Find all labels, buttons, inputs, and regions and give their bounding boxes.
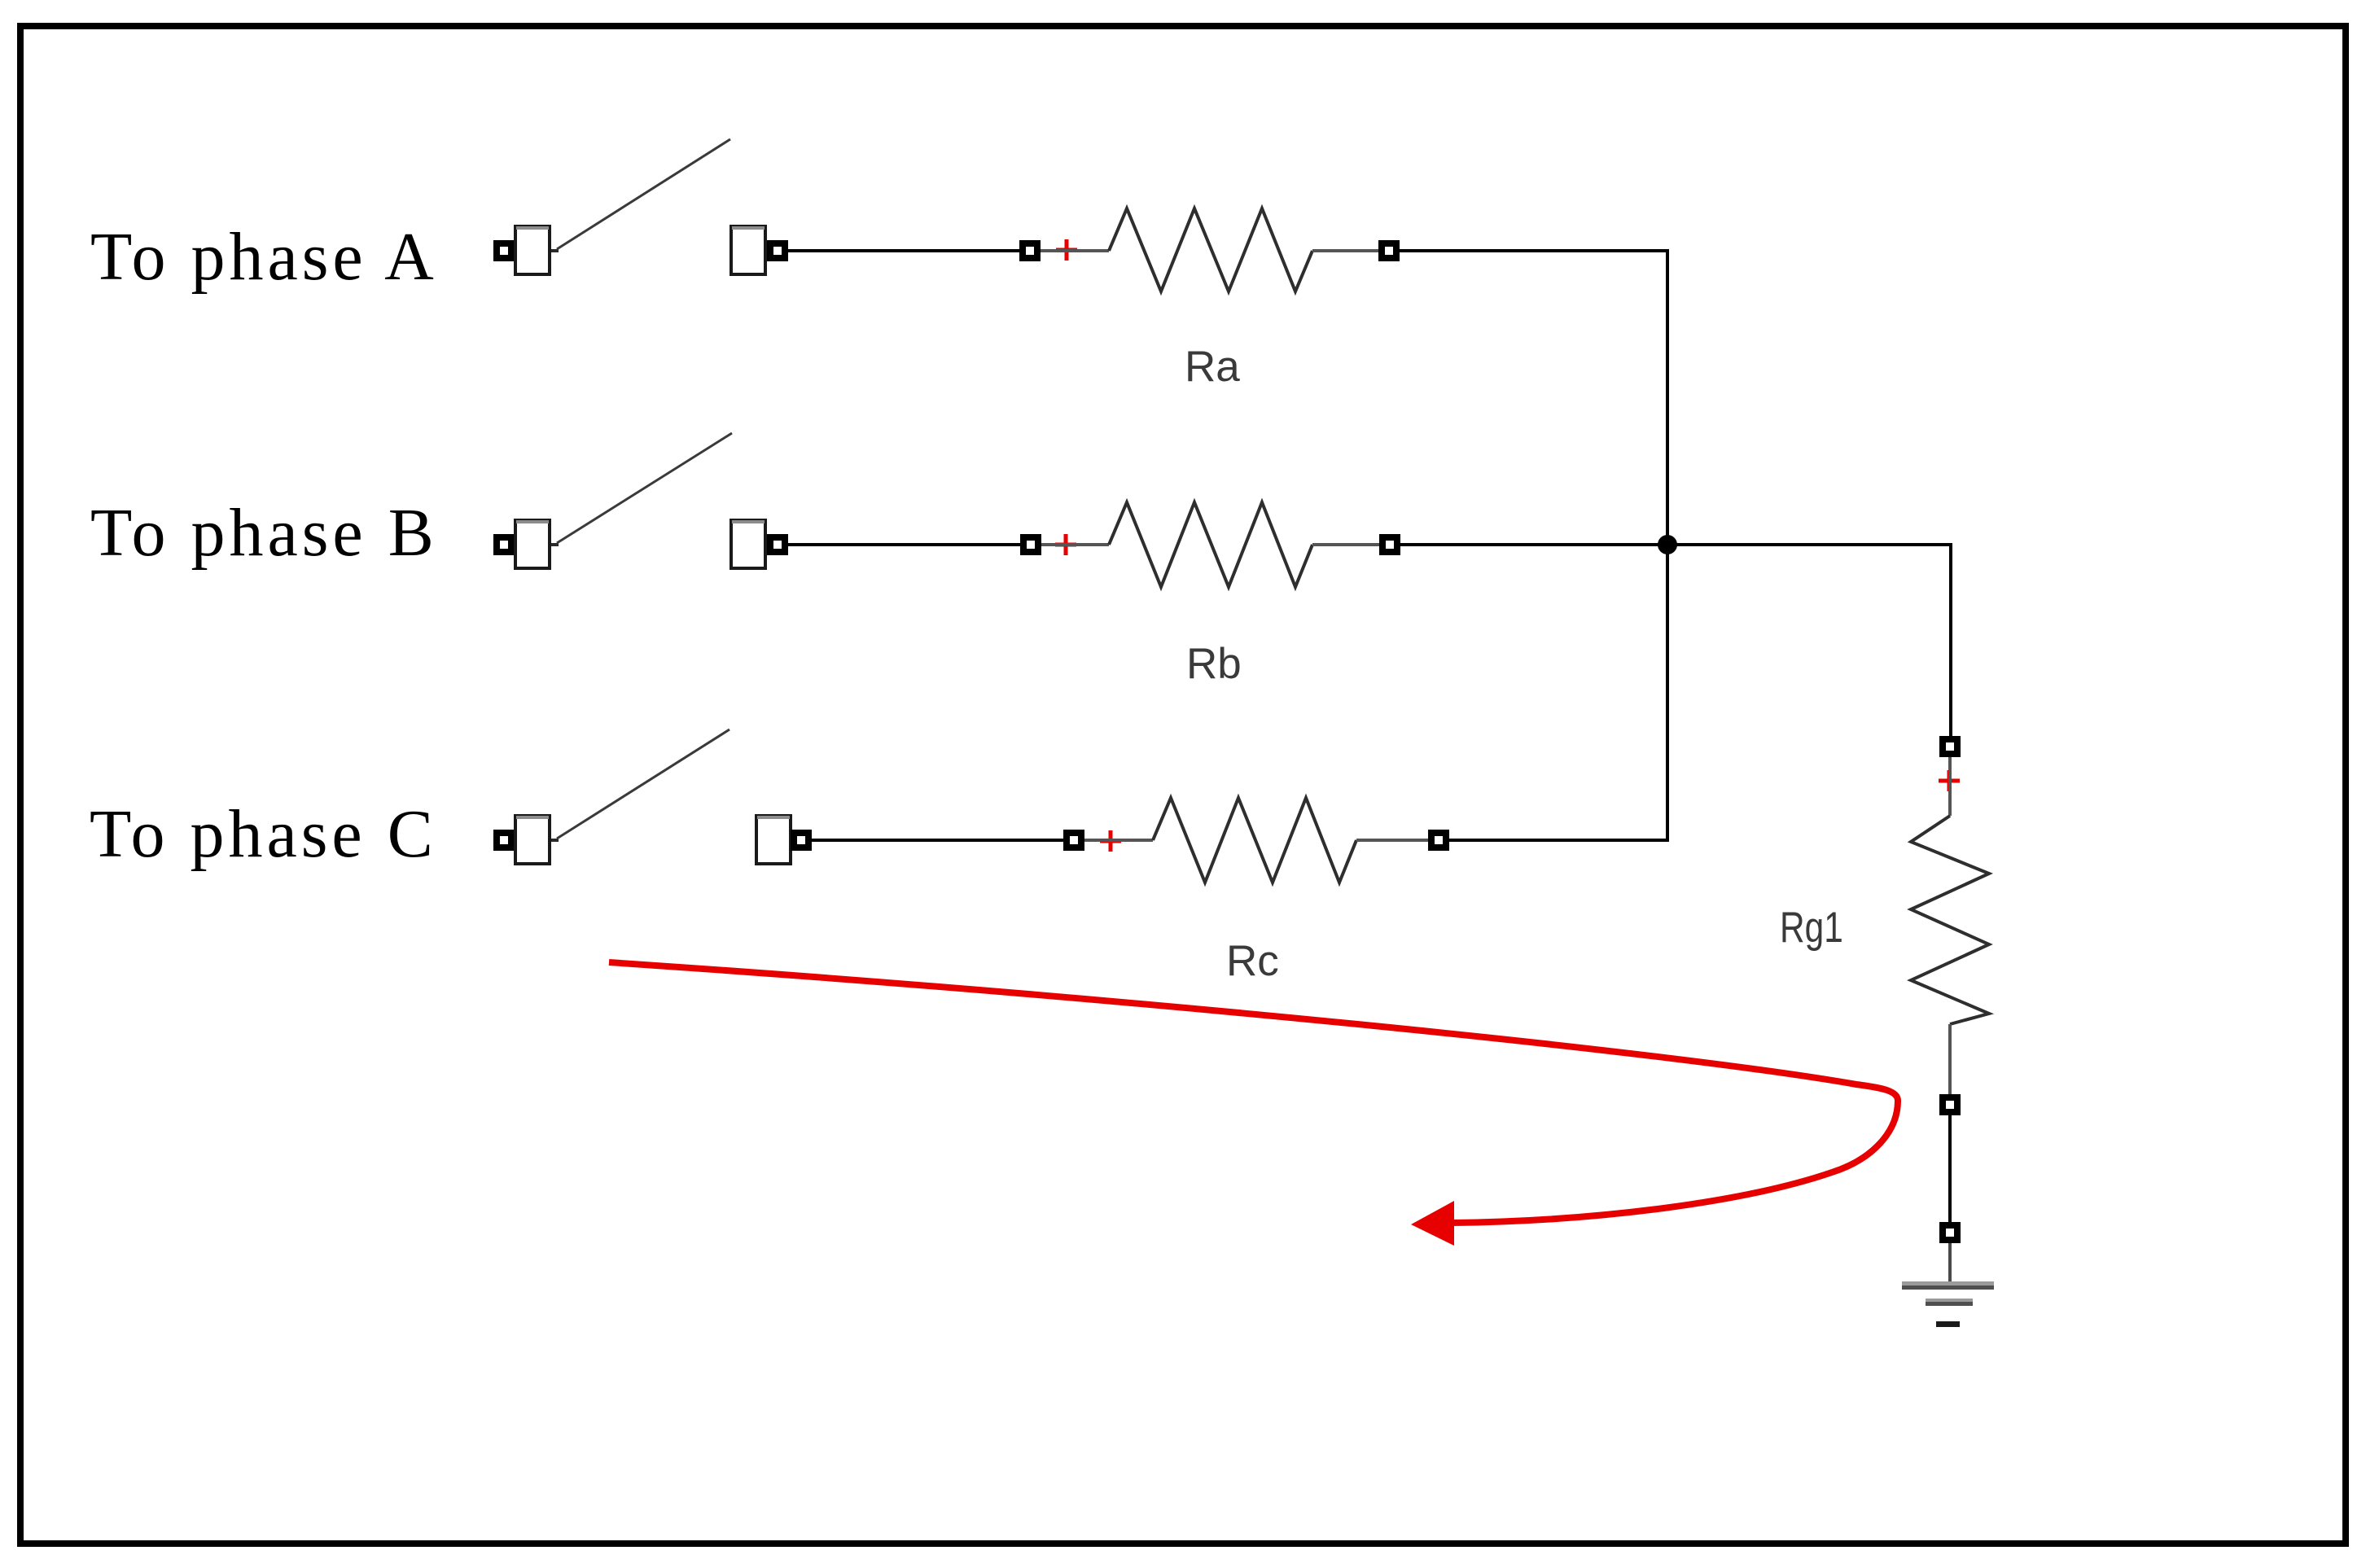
resistor Ra <box>1019 208 1400 291</box>
svg-text:To phase C: To phase C <box>90 796 437 872</box>
terminal block TA (phase A) <box>731 226 788 274</box>
svg-text:Rc: Rc <box>1226 937 1279 985</box>
svg-text:Rb: Rb <box>1186 640 1242 688</box>
wire WC1 (terminal TC to Rc) <box>812 839 1063 842</box>
label Rg1 <box>1780 904 1843 953</box>
switch SWC (breaker to phase C) <box>493 729 730 864</box>
wire WG1 (Rg1 to ground port) <box>1948 1115 1952 1222</box>
resistor Rb <box>1020 502 1400 587</box>
switch SWA (breaker to phase A) <box>493 139 730 274</box>
bus wire (ties Ra, Rb, Rc outputs) <box>1666 249 1669 842</box>
switch SWB (breaker to phase B) <box>493 433 732 568</box>
port P3 (ground connection port) <box>1939 1222 1961 1243</box>
terminal block TB (phase B) <box>731 520 788 568</box>
resistor Rc <box>1063 798 1449 883</box>
terminal block TC (phase C) <box>756 816 812 864</box>
wire WA1 (terminal TA to Ra) <box>788 249 1019 252</box>
svg-text:Rg1: Rg1 <box>1780 904 1843 953</box>
node N1 (common junction on phase B wire) <box>1658 535 1677 554</box>
wire WG2 (port to ground symbol) <box>1948 1243 1952 1285</box>
svg-text:To phase A: To phase A <box>90 219 438 295</box>
wire WC2 (Rc to bus) <box>1449 839 1669 842</box>
resistor Rg1 <box>1911 736 1989 1115</box>
wire WB2 (Rb through node to Rg1 feed) <box>1400 543 1951 546</box>
red current loop arrow <box>609 962 1898 1246</box>
ground G1 <box>1902 1281 1994 1327</box>
svg-text:Ra: Ra <box>1185 343 1240 391</box>
wire WB1 (terminal TB to Rb) <box>788 543 1020 546</box>
wire WN (node feed down to Rg1) <box>1949 543 1952 736</box>
wire WA2 (Ra to bus corner) <box>1400 249 1669 252</box>
svg-text:To phase B: To phase B <box>90 495 438 571</box>
